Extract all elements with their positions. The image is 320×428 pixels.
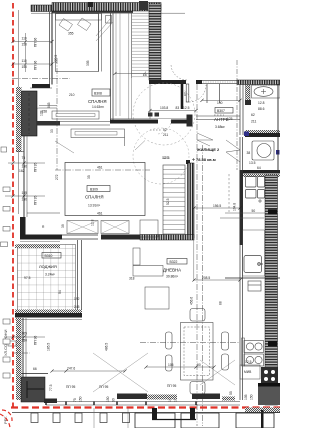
wall: bedroom B308 right wall bbox=[111, 13, 114, 121]
svg-text:50: 50 bbox=[252, 209, 256, 213]
svg-text:162: 162 bbox=[19, 169, 25, 173]
wall: bedroom B308 left wall with windows bbox=[50, 12, 53, 85]
axis: section dash-dot lines bbox=[12, 58, 240, 426]
svg-text:105: 105 bbox=[22, 191, 28, 195]
wall: facade jog at y84 bbox=[30, 84, 52, 88]
wall: B309 right hatched wall bbox=[186, 160, 194, 238]
svg-text:B310: B310 bbox=[45, 254, 53, 258]
svg-text:82: 82 bbox=[184, 92, 188, 96]
svg-text:88.6: 88.6 bbox=[258, 107, 265, 111]
wall: bath inner pier bbox=[245, 85, 251, 106]
svg-text:МИВ: МИВ bbox=[244, 370, 252, 374]
svg-text:62: 62 bbox=[251, 113, 255, 117]
window: bottom facade chains bbox=[66, 384, 178, 402]
svg-text:13.91m²: 13.91m² bbox=[88, 204, 101, 208]
floor: X cross marks near dining bbox=[93, 353, 148, 392]
svg-text:456.6: 456.6 bbox=[190, 297, 194, 305]
dimension: wc texts bbox=[240, 151, 280, 177]
text: red street label bbox=[3, 329, 8, 424]
dimension: table texts bbox=[146, 297, 223, 367]
svg-text:125: 125 bbox=[227, 117, 233, 121]
svg-text:12.5: 12.5 bbox=[183, 106, 190, 110]
wall: loggia/living divider window bbox=[78, 240, 82, 313]
dimension: B309 window chains bbox=[5, 156, 45, 205]
furniture: sideboard near wall bbox=[133, 220, 163, 276]
wall: hall/bath divider bbox=[237, 60, 243, 170]
dimension: room sizes B308 bbox=[54, 55, 90, 66]
shaft: duct lines right of bedroom bbox=[116, 13, 120, 116]
svg-text:94: 94 bbox=[58, 290, 62, 294]
svg-text:105: 105 bbox=[244, 394, 248, 400]
svg-text:318: 318 bbox=[129, 277, 135, 281]
svg-text:192: 192 bbox=[74, 297, 80, 301]
svg-text:12.8: 12.8 bbox=[258, 101, 265, 105]
wall: divider stub dark (37-60) bbox=[37, 121, 60, 126]
wall: B309 bottom / living top wall bbox=[20, 213, 194, 242]
dimension: hall window ticks bbox=[202, 84, 240, 103]
loggia: tiled floor bbox=[15, 245, 76, 314]
wall: bath/wc divider dark bbox=[244, 130, 280, 137]
dimension: left window chain 2 bbox=[13, 59, 52, 70]
label: hall ANTRE bbox=[214, 101, 233, 129]
svg-text:B322: B322 bbox=[170, 260, 178, 264]
svg-text:ПП 96: ПП 96 bbox=[34, 336, 38, 345]
wall: top facade hatched band bbox=[31, 3, 185, 14]
svg-text:ПП 96: ПП 96 bbox=[34, 61, 38, 70]
svg-text:B308: B308 bbox=[94, 92, 102, 96]
svg-text:90: 90 bbox=[197, 363, 201, 367]
svg-text:210: 210 bbox=[69, 93, 75, 97]
svg-text:78.58 кв.м: 78.58 кв.м bbox=[196, 157, 216, 162]
svg-text:64: 64 bbox=[257, 166, 261, 170]
wall: insulation strip left (y87-152) bbox=[16, 87, 22, 152]
wall: hall top wall y80-84 bbox=[149, 80, 240, 84]
wall: kitchen right exterior hatched bbox=[265, 84, 278, 405]
svg-text:150: 150 bbox=[22, 339, 28, 343]
svg-text:150: 150 bbox=[106, 396, 110, 402]
door: entry door leaf + arc bbox=[184, 84, 207, 102]
svg-text:35: 35 bbox=[87, 175, 91, 179]
wall: line under sink section bbox=[225, 277, 280, 279]
svg-text:355: 355 bbox=[68, 32, 74, 36]
wall: kitchen left wall bbox=[240, 137, 244, 400]
appliance: stove bottom dark bbox=[240, 360, 278, 385]
svg-text:12.5: 12.5 bbox=[245, 360, 252, 364]
marker: tiny box left y147 bbox=[1, 147, 7, 152]
wire: dim extension line x194 bbox=[193, 208, 195, 281]
dimension: misc verticals bottom bbox=[0, 0, 1, 1]
svg-text:83: 83 bbox=[176, 106, 180, 110]
label: living room B322 bbox=[163, 259, 187, 279]
label: B309 room bbox=[85, 186, 110, 208]
svg-text:103.8: 103.8 bbox=[160, 106, 168, 110]
fixture: bathroom sink oval bbox=[252, 85, 281, 98]
label: loggia bbox=[24, 253, 61, 281]
svg-text:ДНЕВНА: ДНЕВНА bbox=[163, 268, 181, 273]
svg-text:110: 110 bbox=[22, 37, 27, 41]
wall: corridor bottom wall bbox=[110, 113, 240, 127]
dimension: small tick label top bbox=[88, 2, 93, 7]
door: hall big dashed swing circle bbox=[133, 83, 195, 145]
furniture: bed B308 bbox=[56, 14, 102, 72]
wall: living left wall below loggia bbox=[16, 318, 26, 400]
wall: dark parapet segments above facade bbox=[117, 394, 220, 400]
svg-text:13.5: 13.5 bbox=[249, 161, 256, 165]
boundary: red arcs bottom-left bbox=[0, 410, 12, 428]
svg-text:845: 845 bbox=[47, 102, 51, 108]
svg-text:ПП 95: ПП 95 bbox=[34, 163, 38, 172]
dimension: living left window chain bbox=[5, 332, 45, 347]
wall: loggia bottom parapet bbox=[15, 310, 82, 320]
furniture: bed B309 bbox=[55, 141, 150, 227]
wall: B309 left wall with windows bbox=[16, 136, 27, 217]
marker: left margin boxes lower bbox=[3, 319, 10, 378]
svg-text:110: 110 bbox=[22, 59, 27, 63]
fixture: washing machine circle bbox=[252, 141, 280, 160]
furniture: bench footers with X bbox=[61, 221, 129, 234]
svg-text:ЛОДЖИЯ: ЛОДЖИЯ bbox=[39, 264, 57, 269]
appliance: double oven circles bbox=[242, 338, 264, 366]
svg-text:52.5: 52.5 bbox=[166, 198, 170, 205]
svg-text:247.6: 247.6 bbox=[67, 367, 75, 371]
svg-text:55: 55 bbox=[229, 391, 233, 395]
svg-text:220.5: 220.5 bbox=[54, 55, 58, 63]
svg-text:3.68м²: 3.68м² bbox=[215, 125, 226, 129]
svg-text:3.24м²: 3.24м² bbox=[45, 273, 56, 277]
appliance: sink bbox=[243, 230, 265, 276]
svg-text:77.5: 77.5 bbox=[49, 384, 53, 391]
svg-text:486.5: 486.5 bbox=[105, 343, 109, 351]
svg-text:150: 150 bbox=[79, 396, 83, 402]
svg-text:185.5: 185.5 bbox=[47, 343, 51, 351]
terrace: deck floor lines bbox=[129, 13, 149, 119]
boundary: red dashed horizontal bbox=[11, 406, 280, 408]
column: concrete pier left (21-37, 91-136) bbox=[22, 91, 38, 136]
svg-text:104.8: 104.8 bbox=[233, 203, 237, 211]
table: dining table with chairs bbox=[166, 309, 229, 395]
svg-text:ПП 95: ПП 95 bbox=[167, 384, 176, 388]
dimension: terrace 16 line bbox=[115, 73, 149, 75]
door: terrace door swing arc (into terrace) bbox=[171, 64, 187, 80]
wall: terrace right hatched band bbox=[149, 4, 161, 80]
svg-text:150: 150 bbox=[22, 165, 28, 169]
svg-text:ПП 95: ПП 95 bbox=[34, 196, 38, 205]
appliance: small fixture bbox=[248, 281, 261, 291]
door: hall to living zigzag bbox=[197, 133, 213, 146]
wall: bathroom top wall hatched bbox=[237, 80, 280, 85]
svg-text:208.5: 208.5 bbox=[202, 276, 210, 280]
svg-text:150: 150 bbox=[22, 65, 28, 69]
svg-text:66: 66 bbox=[33, 367, 37, 371]
svg-text:97.5: 97.5 bbox=[24, 276, 31, 280]
svg-text:245: 245 bbox=[74, 305, 80, 309]
furniture: desk in B309 under divider bbox=[71, 129, 125, 146]
label: apartment title bbox=[192, 147, 220, 162]
svg-text:СПАЛНЯ: СПАЛНЯ bbox=[85, 195, 104, 200]
svg-text:СПАЛНЯ: СПАЛНЯ bbox=[88, 99, 107, 104]
wire: plot boundary thin line bbox=[18, 10, 20, 214]
svg-text:38: 38 bbox=[247, 151, 251, 155]
dimension: living bottom chain bbox=[33, 343, 125, 371]
furniture: wardrobe with rungs bbox=[163, 156, 185, 235]
column: big corner column SW bbox=[21, 374, 57, 404]
dimension: connector line left bbox=[24, 33, 27, 72]
label: B308 room bbox=[40, 89, 111, 133]
wire: hall/corridor divider line bbox=[149, 84, 151, 119]
svg-text:ПП 96: ПП 96 bbox=[34, 38, 38, 47]
svg-text:150: 150 bbox=[22, 198, 28, 202]
svg-text:128: 128 bbox=[40, 110, 44, 116]
furniture: dresser under B308 bbox=[52, 111, 99, 119]
furniture: nightstand right corner bbox=[96, 16, 113, 42]
furniture: tv rect bbox=[145, 287, 169, 309]
dimension: tick slashes bbox=[11, 40, 241, 373]
svg-text:211: 211 bbox=[251, 120, 257, 124]
svg-text:461: 461 bbox=[97, 212, 103, 216]
svg-text:105: 105 bbox=[168, 363, 174, 367]
svg-text:B309: B309 bbox=[90, 188, 98, 192]
wall: bottom facade window band bbox=[46, 402, 240, 406]
dimension: right side chains bbox=[194, 204, 254, 400]
svg-text:150: 150 bbox=[250, 394, 254, 400]
svg-text:ПП 95: ПП 95 bbox=[66, 385, 75, 389]
door: B308 door arc bbox=[28, 108, 39, 119]
door: B309 door 52/211 bbox=[150, 120, 171, 137]
svg-text:ЖИЛИЩЕ 2: ЖИЛИЩЕ 2 bbox=[196, 147, 220, 152]
counter: dark slab bottom right bbox=[258, 383, 280, 405]
street: strip below red line bbox=[12, 397, 280, 428]
wall: hall left wall vertical bbox=[181, 84, 184, 109]
svg-text:305: 305 bbox=[86, 60, 90, 66]
svg-text:150: 150 bbox=[22, 43, 28, 47]
svg-text:B307: B307 bbox=[217, 109, 225, 113]
svg-text:39.86m²: 39.86m² bbox=[166, 275, 179, 279]
dimension: left window chain 1 bbox=[13, 37, 52, 48]
dimension: 50 + cross bbox=[220, 174, 265, 218]
door: opening 158 in divider bbox=[39, 106, 57, 114]
svg-text:88: 88 bbox=[219, 301, 223, 305]
svg-text:39: 39 bbox=[61, 224, 65, 228]
svg-text:12.3: 12.3 bbox=[163, 156, 170, 160]
svg-text:14.63m²: 14.63m² bbox=[92, 105, 105, 109]
svg-text:156.5: 156.5 bbox=[213, 204, 221, 208]
door: zigzag into bath bbox=[226, 140, 240, 162]
appliance: cooktop 4 squares bbox=[246, 177, 265, 199]
door: bath door marker bbox=[214, 114, 224, 116]
marker: little boxes on left margin bbox=[1, 187, 11, 247]
svg-text:33: 33 bbox=[50, 129, 54, 133]
wall: divider thin part to x110 bbox=[60, 122, 110, 126]
svg-text:75: 75 bbox=[22, 156, 26, 160]
door: B309 swing dashed circle bbox=[133, 128, 189, 184]
svg-text:461: 461 bbox=[97, 166, 103, 170]
dimension: hall widths bbox=[150, 106, 196, 111]
dimension: bath texts bbox=[251, 101, 265, 124]
svg-text:211: 211 bbox=[163, 133, 168, 137]
dimension: 192/245 bbox=[74, 297, 80, 309]
svg-text:272: 272 bbox=[55, 174, 59, 180]
boundary: red dashed vertical bbox=[12, 3, 14, 409]
svg-text:105: 105 bbox=[22, 332, 28, 336]
